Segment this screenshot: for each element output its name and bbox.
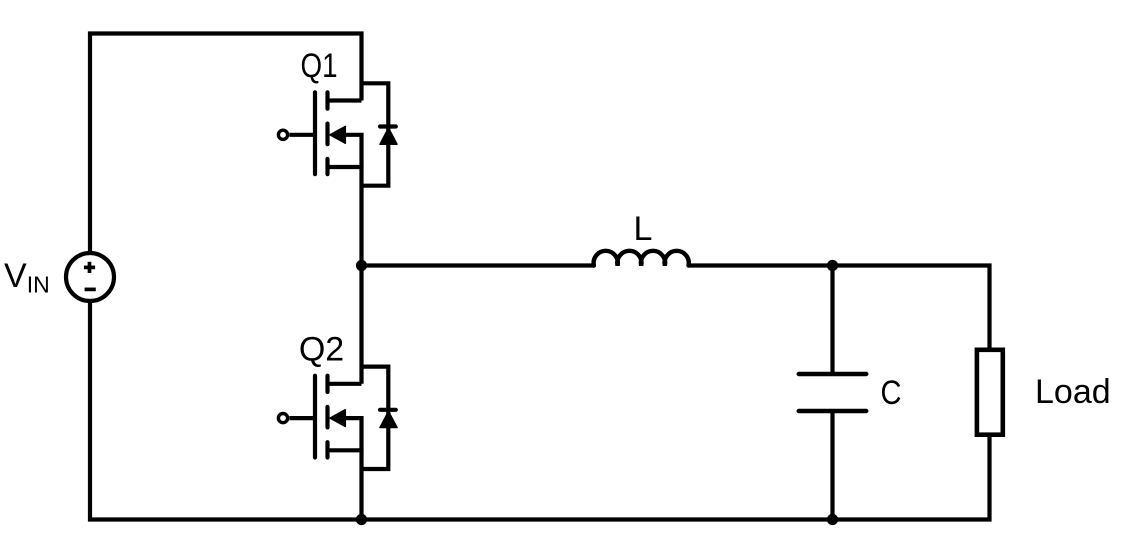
Q2 body diode branch wire <box>362 367 389 469</box>
Q1 body diode triangle <box>380 128 397 144</box>
junction node: output node at C top <box>827 260 838 271</box>
wire from switch node to inductor <box>362 263 595 267</box>
resistor Load <box>977 350 1003 435</box>
wire from VIN+ up the left rail and top rail to Q1 drain <box>90 34 362 252</box>
Q1 source lead <box>328 165 362 169</box>
Q2 body diode cathode bar <box>380 408 396 412</box>
C bottom plate <box>799 409 867 413</box>
Q1 gate lead wire <box>289 133 313 137</box>
junction node: Q2 source at ground rail <box>356 514 367 525</box>
transistor Q2 (low-side N-MOSFET) <box>278 376 361 458</box>
Q1 body diode branch wire <box>362 83 389 185</box>
Q1 body connection wire <box>344 135 362 167</box>
wire from inductor to output node <box>688 263 832 267</box>
Q2 gate terminal circle <box>278 414 287 423</box>
Q1 gate bar <box>313 92 317 174</box>
svg-text:L: L <box>634 210 653 248</box>
Q2 channel bar bottom (source) <box>325 442 329 457</box>
Q2 source lead <box>328 448 362 452</box>
svg-text:Q1: Q1 <box>301 47 338 85</box>
wire from switch node down to Q2 drain <box>359 266 363 384</box>
Q1 channel bar middle (body) <box>325 124 329 145</box>
junction node: switch node <box>356 260 367 271</box>
Q2 gate bar <box>313 376 317 458</box>
svg-text:C: C <box>881 374 902 412</box>
capacitor C <box>799 374 867 411</box>
Q2 gate lead wire <box>289 416 313 420</box>
Q2 body connection wire <box>344 418 362 450</box>
Q2 channel bar top (drain) <box>325 376 329 392</box>
Q1 body arrow head <box>330 126 345 143</box>
svg-text:Q2: Q2 <box>299 331 344 369</box>
svg-text:Load: Load <box>1035 373 1111 411</box>
wire from output node to Load top <box>833 266 990 348</box>
Q1 channel bar top (drain) <box>325 92 329 108</box>
Q1 gate terminal circle <box>278 130 287 139</box>
Q2 body arrow head <box>330 410 345 427</box>
inductor L <box>594 251 689 266</box>
Q2 drain lead <box>328 382 362 386</box>
Q1 body diode cathode bar <box>380 124 396 128</box>
wire from Q1 source down to switch node <box>359 166 363 266</box>
Q1 channel bar bottom (source) <box>325 159 329 174</box>
Q1 drain lead <box>328 98 362 102</box>
wire from output node down to capacitor C top plate <box>830 266 834 375</box>
wire from Q2 source down to ground rail <box>359 449 363 519</box>
Q2 channel bar middle (body) <box>325 407 329 428</box>
svg-text:VIN: VIN <box>4 257 50 298</box>
C top plate <box>799 372 867 376</box>
wire from capacitor C bottom plate down to ground rail <box>830 411 834 520</box>
wire from VIN- down the left rail and bottom rail up to Load bottom <box>90 303 990 520</box>
junction node: C bottom at ground rail <box>827 514 838 525</box>
transistor Q1 (high-side N-MOSFET) <box>278 92 361 174</box>
voltage source VIN <box>66 253 114 301</box>
Q2 body diode triangle <box>380 411 397 427</box>
